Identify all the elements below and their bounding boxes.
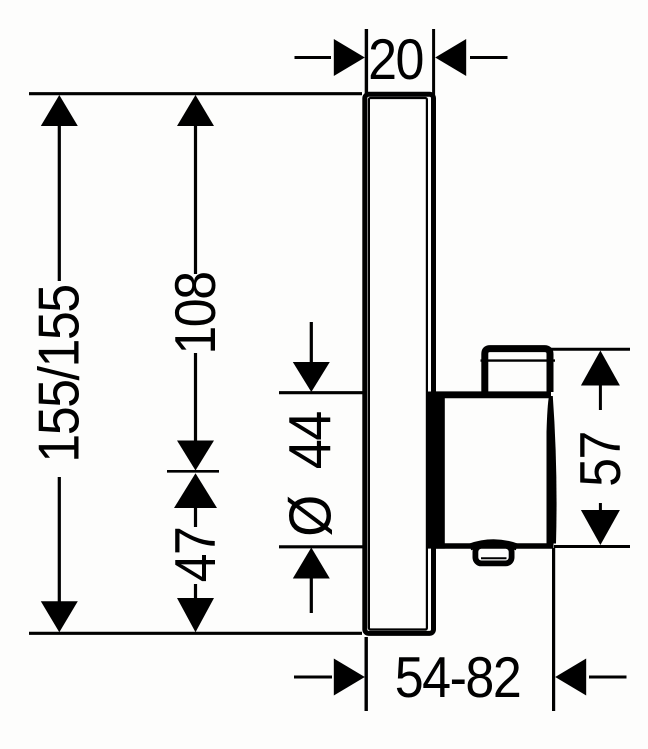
- extension line dia44 bottom: [279, 545, 363, 548]
- arrow 57 top (points up): [581, 351, 620, 386]
- arrow 54-82 right (points left): [555, 659, 586, 696]
- wall plate outer outline: [365, 94, 434, 633]
- svg-text:54-82: 54-82: [395, 646, 520, 710]
- svg-text:Ø 44: Ø 44: [278, 412, 344, 537]
- extension line bottom (y=633): [29, 632, 362, 635]
- extension line 20 right vertical: [432, 29, 435, 95]
- svg-text:108: 108: [164, 272, 228, 354]
- wall plate inner face line: [369, 98, 427, 630]
- arrow 155 bottom: [41, 601, 78, 632]
- extension line 54-82 left vertical: [365, 637, 368, 711]
- extension line dia44 top: [279, 391, 363, 394]
- dimension dia44 tails: [310, 322, 313, 613]
- handle body right curved edge: [547, 396, 557, 544]
- handle top knob inner line: [481, 359, 556, 361]
- bottom tab bump arc: [470, 543, 517, 547]
- svg-text:57: 57: [568, 432, 632, 487]
- arrow 20 right (points left): [435, 39, 466, 76]
- extension line 20 left vertical: [365, 29, 368, 95]
- handle body bottom edge: [436, 543, 554, 549]
- dimension 57 tails: [599, 384, 602, 515]
- arrow 108 top: [177, 95, 214, 126]
- extension line 57 top: [551, 348, 630, 351]
- arrow 108 bottom (at centerline): [177, 441, 214, 471]
- arrow 155 top: [41, 95, 78, 126]
- dimension 54-82 tails: [294, 676, 627, 679]
- dimension 155/155 line: [58, 124, 61, 602]
- extension line top (y=94): [29, 92, 362, 95]
- svg-text:155/155: 155/155: [27, 285, 91, 463]
- arrow 47 top (at centerline): [174, 473, 217, 508]
- svg-text:47: 47: [164, 528, 228, 583]
- arrow dia44 top (points down): [293, 362, 330, 392]
- svg-text:20: 20: [368, 28, 423, 92]
- handle sleeve (filled): [426, 392, 445, 549]
- arrow 47 bottom: [177, 598, 214, 632]
- extension line 54-82 right vertical: [552, 548, 555, 711]
- bottom tab outline: [475, 546, 511, 564]
- arrow 57 bottom (points down): [581, 510, 620, 545]
- dimension 47 line: [194, 506, 197, 599]
- arrow 20 left (points right): [334, 39, 365, 76]
- extension line 57 bottom: [554, 545, 630, 548]
- arrow 54-82 left (points right): [334, 659, 365, 696]
- centerline tick: [167, 470, 219, 473]
- dimension 108 line: [194, 124, 197, 441]
- arrow dia44 bottom (points up): [293, 548, 330, 579]
- handle top knob outline: [485, 349, 550, 392]
- handle body top edge: [436, 391, 551, 398]
- bottom tab inner line: [481, 557, 507, 559]
- dimension 20 tails: [295, 56, 508, 59]
